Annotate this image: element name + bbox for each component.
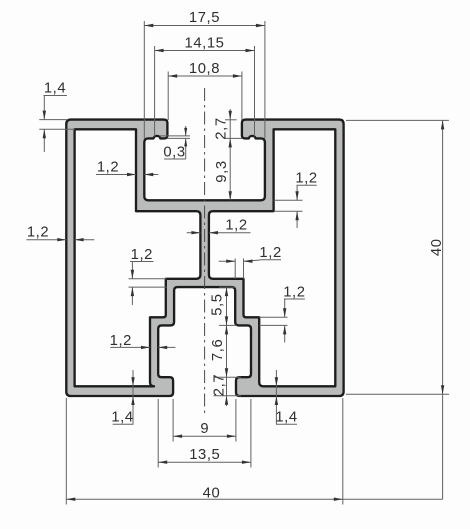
svg-text:7,6: 7,6 [210, 339, 226, 361]
svg-text:10,8: 10,8 [189, 61, 220, 77]
svg-text:1,4: 1,4 [275, 410, 297, 426]
svg-text:1,2: 1,2 [225, 218, 247, 234]
dim 9 [173, 435, 236, 437]
10,8 [168, 74, 177, 77]
2,7 top / 9,3 [229, 111, 232, 120]
1,2 upper wall right [226, 260, 235, 263]
svg-text:13,5: 13,5 [189, 447, 220, 463]
1,2 top channel wall [127, 173, 136, 176]
1,4 BL [131, 377, 134, 386]
svg-text:1,4: 1,4 [111, 410, 133, 426]
dim 1,2 lower wall left [110, 346, 150, 348]
2,7 bottom [225, 396, 228, 405]
13,5 [158, 461, 167, 464]
centerline (dash-dot) [204, 88, 206, 413]
1,2 floor right [295, 191, 298, 200]
svg-text:5,5: 5,5 [210, 293, 226, 315]
dim 1,4 bottom-left [113, 423, 134, 425]
dim 1,4 bottom-right [276, 423, 297, 425]
dim 13,5 [158, 461, 251, 463]
dim 40 bottom [66, 498, 442, 500]
dim 17,5 [144, 25, 265, 27]
svg-text:1,4: 1,4 [44, 81, 66, 97]
40 bottom [66, 498, 75, 501]
1,2 web [191, 231, 200, 234]
dim 5,5 / 7,6 / 2,7 center column [226, 287, 228, 406]
dim 1,4 top-left [44, 95, 67, 97]
dim 40 right [442, 120, 444, 499]
arrowheads [43, 24, 445, 501]
1,2 flange left [131, 270, 134, 279]
dim 14,15 [155, 50, 255, 52]
dim 1,2 step right [284, 298, 305, 300]
7,6 [225, 325, 228, 334]
1,4 BR [275, 377, 278, 386]
dim 1,2 floor right [297, 184, 317, 186]
svg-text:40: 40 [429, 238, 445, 256]
1,2 lower wall left [141, 346, 150, 349]
svg-text:1,2: 1,2 [27, 225, 49, 241]
1,2 left wall [57, 238, 66, 241]
dim 2,7 / 9,3 vertical line [229, 109, 231, 200]
17,5 [144, 24, 153, 27]
dim 1,2 top channel left wall [96, 174, 136, 176]
dim 1,2 upper wall right [260, 259, 281, 261]
svg-text:1,2: 1,2 [110, 333, 132, 349]
14,15 [155, 49, 164, 52]
svg-text:9: 9 [200, 421, 209, 437]
svg-text:0,3: 0,3 [163, 144, 185, 160]
5,5 [225, 287, 228, 296]
svg-text:2,7: 2,7 [214, 117, 230, 139]
svg-text:1,2: 1,2 [295, 170, 317, 186]
svg-text:17,5: 17,5 [189, 10, 220, 26]
svg-text:2,7: 2,7 [212, 374, 228, 396]
svg-text:1,2: 1,2 [97, 160, 119, 176]
profile body: 40x40 aluminium extrusion cross-section [66, 120, 343, 396]
1,4 TL [43, 111, 46, 120]
dim 1,2 left wall [26, 239, 66, 241]
svg-text:40: 40 [203, 486, 221, 502]
svg-text:1,2: 1,2 [283, 284, 305, 300]
dim 1,2 flange left [130, 261, 154, 263]
dim 1,2 web [187, 232, 201, 234]
dim 0,3 leader [164, 158, 186, 160]
svg-text:14,15: 14,15 [184, 35, 224, 51]
dim 10,8 [168, 75, 242, 77]
0,3 [184, 128, 187, 136]
svg-text:1,2: 1,2 [131, 247, 153, 263]
1,2 step right [283, 308, 286, 317]
svg-text:9,3: 9,3 [214, 160, 230, 182]
40 right [441, 120, 444, 129]
9 [173, 435, 182, 438]
svg-text:1,2: 1,2 [259, 245, 281, 261]
